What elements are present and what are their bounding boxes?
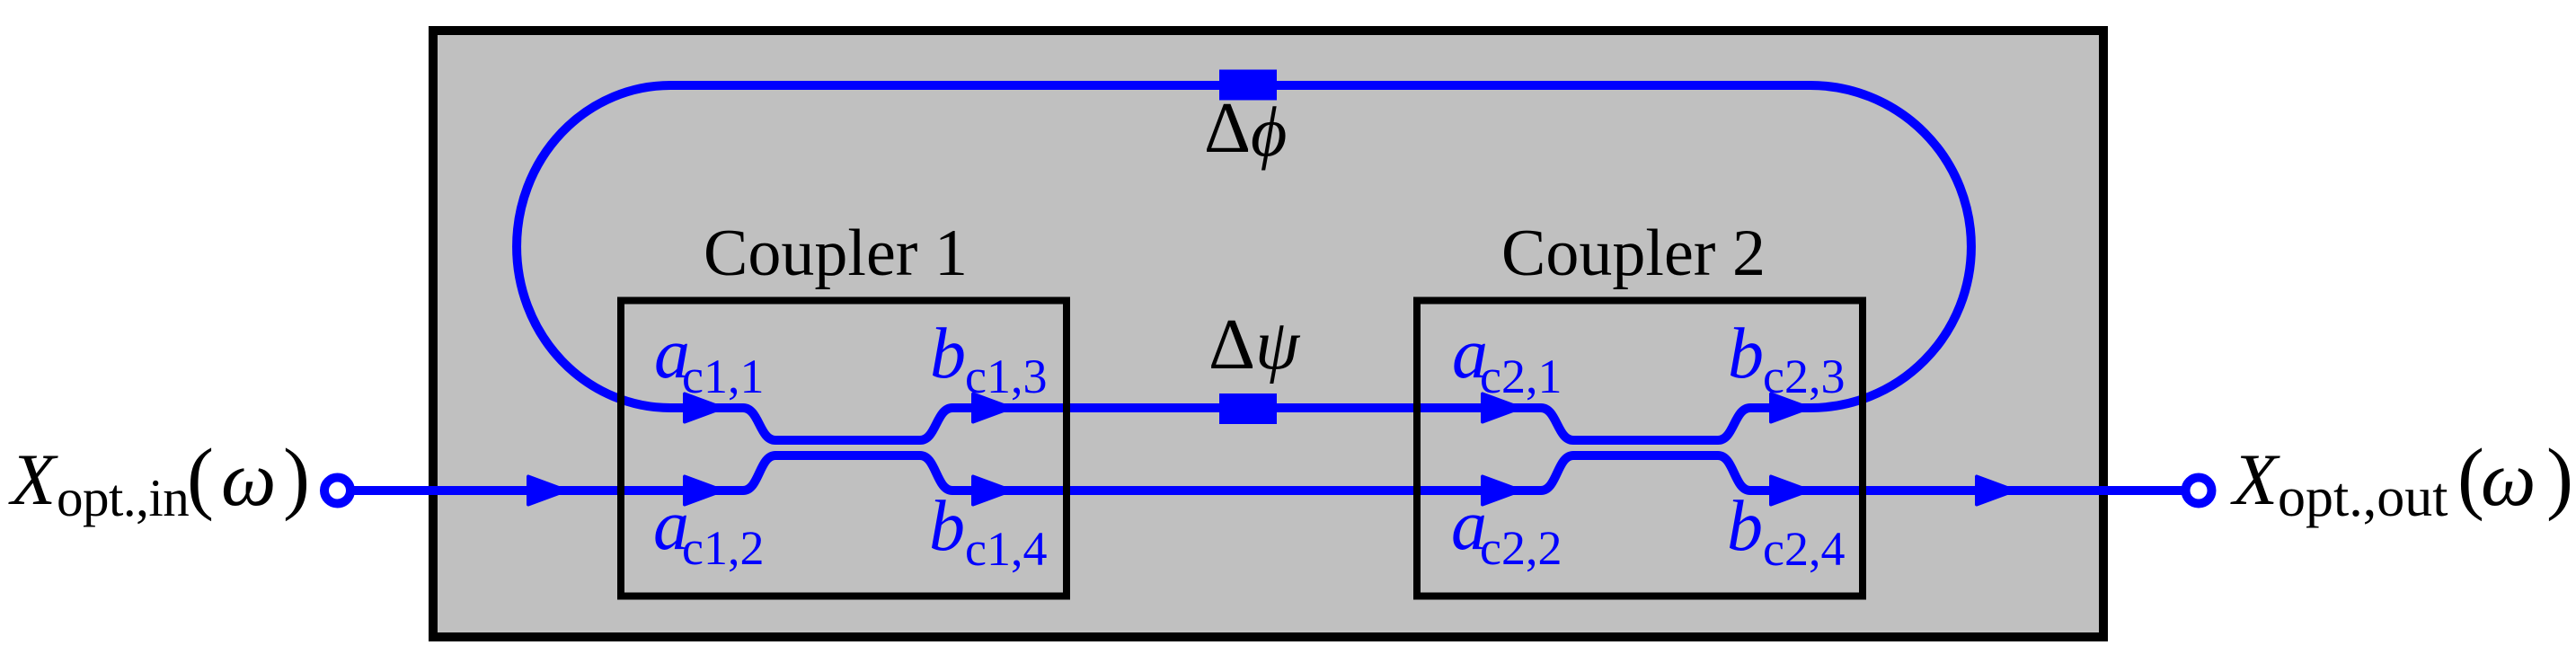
svg-text:c1,3: c1,3 — [965, 349, 1047, 403]
phase shifter marker (delta phi) — [1219, 70, 1277, 101]
coupler 1 box — [621, 301, 1067, 597]
svg-text:ω: ω — [221, 435, 276, 522]
lower waveguide from input to output — [350, 455, 2185, 491]
coupler 2 box — [1417, 301, 1863, 597]
svg-text:c2,3: c2,3 — [1763, 349, 1845, 403]
svg-text:b: b — [930, 314, 966, 393]
svg-text:b: b — [1727, 487, 1763, 566]
svg-text:): ) — [2546, 433, 2573, 522]
feedback loop waveguide with phase shifter — [517, 85, 1971, 408]
svg-text:Coupler 2: Coupler 2 — [1501, 217, 1766, 290]
upper waveguide through couplers — [670, 408, 1810, 440]
svg-text:c1,2: c1,2 — [682, 521, 764, 575]
svg-text:c1,1: c1,1 — [682, 349, 764, 403]
svg-text:b: b — [1728, 314, 1764, 393]
svg-text:ω: ω — [2481, 435, 2536, 522]
svg-text:Δ: Δ — [1204, 87, 1251, 168]
wire arrow a_c1,1 — [685, 394, 722, 422]
svg-text:c2,4: c2,4 — [1763, 522, 1845, 576]
enclosure box (interferometer chip) — [433, 31, 2103, 637]
svg-text:b: b — [929, 487, 965, 566]
wire arrow b_c2,3 — [1771, 394, 1809, 422]
svg-text:): ) — [283, 433, 310, 522]
wire arrow a_c2,2 — [1483, 477, 1520, 505]
phase shifter marker (delta psi) — [1219, 393, 1277, 424]
svg-text:c1,4: c1,4 — [965, 522, 1047, 576]
svg-text:opt.,in: opt.,in — [57, 468, 189, 527]
wire arrow b_c1,4 — [973, 477, 1011, 505]
wire arrow input line — [528, 477, 566, 505]
svg-text:opt.,out: opt.,out — [2278, 467, 2448, 528]
svg-text:ψ: ψ — [1255, 306, 1301, 385]
svg-text:c2,2: c2,2 — [1480, 521, 1562, 575]
svg-text:Coupler 1: Coupler 1 — [704, 217, 968, 290]
svg-text:(: ( — [187, 433, 214, 522]
svg-text:ϕ: ϕ — [1251, 93, 1287, 171]
svg-text:c2,1: c2,1 — [1480, 349, 1562, 403]
svg-text:Δ: Δ — [1208, 304, 1255, 385]
wire arrow b_c1,3 — [973, 394, 1011, 422]
svg-text:X: X — [8, 438, 58, 520]
wire arrow a_c2,1 — [1483, 394, 1520, 422]
wire arrow b_c2,4 — [1771, 477, 1809, 505]
wire arrow output line — [1977, 477, 2014, 505]
svg-text:X: X — [2230, 438, 2280, 520]
wire arrow a_c1,2 — [685, 477, 722, 505]
input port terminal — [324, 478, 350, 504]
output port terminal — [2186, 478, 2212, 504]
